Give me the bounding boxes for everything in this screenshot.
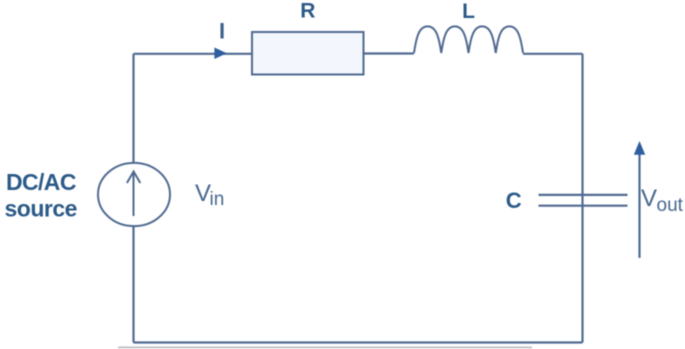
svg-text:DC/AC: DC/AC: [6, 169, 76, 195]
wire: bottom run: [134, 341, 583, 343]
svg-text:L: L: [462, 0, 475, 23]
svg-text:R: R: [300, 0, 315, 23]
capacitor C1 top plate: [539, 194, 628, 196]
wire: source bottom to bottom-left corner: [132, 226, 134, 343]
capacitor C1 bottom plate: [539, 205, 628, 207]
voltage source V1 (DC/AC source) circle: [98, 163, 170, 226]
current arrow I head: [214, 48, 226, 60]
wire: left vertical, top-left corner down to source top: [132, 54, 134, 164]
wire: inductor to top-right corner: [523, 53, 583, 55]
wire: resistor to inductor: [364, 52, 415, 54]
wire: right vertical: [581, 54, 583, 343]
wire: top run from corner to resistor: [134, 53, 253, 55]
svg-text:source: source: [5, 196, 77, 222]
voltage source arrow shaft: [133, 173, 135, 216]
Vout arrow shaft: [638, 154, 640, 258]
resistor R1 body: [252, 32, 364, 75]
svg-text:V: V: [641, 185, 657, 212]
voltage source arrow head (open chevron): [127, 172, 140, 184]
svg-text:out: out: [657, 195, 684, 216]
svg-text:in: in: [210, 189, 225, 210]
inductor L1 (4 humps): [414, 26, 523, 53]
Vout arrow head: [634, 141, 645, 155]
partial grey line at bottom edge (cropped artifact): [118, 346, 532, 348]
svg-text:I: I: [219, 19, 225, 44]
svg-text:C: C: [506, 188, 522, 213]
